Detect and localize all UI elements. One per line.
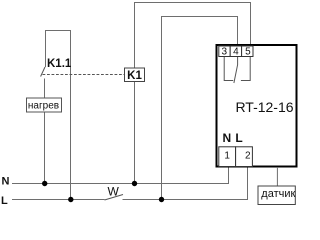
svg-text:N: N [2,176,10,188]
svg-text:датчик: датчик [261,188,295,200]
svg-text:5: 5 [245,47,251,58]
svg-text:K1: K1 [127,70,142,82]
svg-text:N: N [222,131,231,145]
svg-text:2: 2 [245,151,251,162]
svg-text:K1.1: K1.1 [47,58,72,70]
svg-text:4: 4 [233,47,239,58]
svg-text:W: W [108,185,120,199]
svg-text:3: 3 [222,47,228,58]
svg-text:нагрев: нагрев [28,101,59,112]
svg-text:L: L [235,131,242,145]
svg-text:L: L [1,195,8,207]
svg-text:RT-12-16: RT-12-16 [235,99,293,115]
svg-text:1: 1 [224,151,230,162]
